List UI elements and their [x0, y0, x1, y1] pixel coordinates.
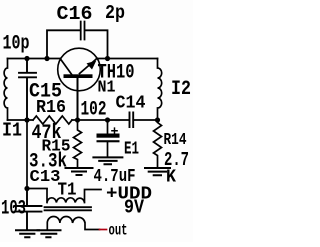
transformer T1 core — [45, 207, 92, 210]
svg-text:C13: C13 — [30, 168, 61, 187]
transistor N1 emitter diagonal — [80, 59, 97, 74]
svg-text:I1: I1 — [2, 120, 22, 142]
transistor N1 base wire — [77, 78, 79, 120]
junction dot top C15 — [24, 56, 29, 61]
junction dot rail E1 — [105, 117, 110, 122]
resistor R14 — [154, 120, 162, 167]
junction dot rail C15 — [24, 117, 29, 122]
capacitor E1 lead — [107, 120, 109, 157]
svg-text:N1: N1 — [98, 79, 116, 98]
capacitor C16 — [47, 22, 108, 59]
transistor N1 base bar — [64, 74, 93, 78]
ground below T1 secondary — [38, 230, 61, 237]
wire bottom rail left — [8, 119, 34, 121]
transformer T1 primary — [47, 189, 101, 203]
junction dot T1 node — [24, 186, 29, 191]
wire bottom rail right of C14 — [133, 119, 157, 121]
junction dot top C16 left — [44, 56, 49, 61]
svg-text:R14: R14 — [164, 131, 187, 150]
capacitor C14 — [130, 113, 134, 128]
inductor I1 — [4, 59, 7, 121]
svg-text:R16: R16 — [36, 98, 66, 118]
ground below E1 — [93, 157, 122, 164]
svg-text:K: K — [166, 168, 176, 188]
svg-text:C14: C14 — [116, 94, 146, 114]
svg-text:+: + — [111, 125, 119, 141]
svg-text:2p: 2p — [105, 2, 125, 24]
wire C15-bottom to T1 node — [26, 120, 28, 189]
svg-text:I2: I2 — [171, 78, 191, 101]
svg-text:E1: E1 — [124, 140, 139, 160]
svg-text:C16: C16 — [57, 3, 93, 25]
resistor R16 — [33, 116, 72, 124]
transistor N1 emitter arrowhead — [87, 61, 97, 70]
transistor N1 circle — [58, 48, 101, 91]
inductor I2 — [158, 59, 162, 121]
svg-text:102: 102 — [81, 99, 107, 122]
wire top rail left segment — [8, 58, 61, 60]
svg-text:10p: 10p — [3, 33, 30, 56]
wire out lead red — [100, 229, 107, 231]
resistor R15 — [74, 120, 82, 167]
svg-text:out: out — [109, 222, 128, 240]
ground below R15 — [66, 168, 93, 175]
junction dot top C16 right — [105, 56, 110, 61]
transformer T1 secondary — [47, 216, 99, 229]
wire bottom rail mid — [72, 119, 129, 121]
svg-text:T1: T1 — [58, 181, 77, 201]
capacitor E1 minus plate — [97, 140, 120, 142]
capacitor C13 — [15, 189, 42, 230]
wire node to T1 primary — [27, 188, 47, 190]
junction dot rail I2 — [155, 117, 160, 122]
ground below C13 — [16, 230, 39, 237]
junction dot rail base — [75, 117, 80, 122]
svg-text:9V: 9V — [124, 197, 145, 219]
ground below R14 — [145, 168, 170, 175]
wire top rail right segment — [97, 58, 158, 60]
transistor N1 collector diagonal — [60, 59, 71, 74]
capacitor E1 plus plate — [97, 134, 120, 138]
capacitor C15 — [19, 59, 36, 121]
svg-text:103: 103 — [1, 198, 26, 221]
